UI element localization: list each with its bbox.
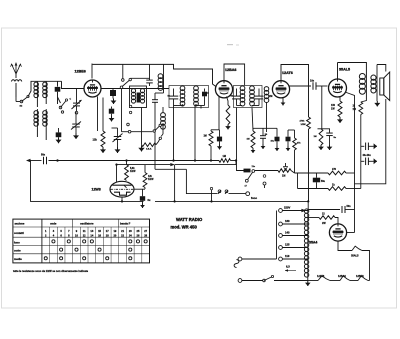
filter cap C23 — [361, 154, 374, 165]
resistor R13 22ohm — [308, 210, 338, 226]
resistor R18 grid leak U4 — [314, 86, 337, 150]
tube U3 12AT6 — [272, 80, 289, 98]
detector coil L15 — [264, 87, 272, 132]
svg-text:WATT RADIO: WATT RADIO — [176, 217, 203, 222]
table frame — [13, 219, 150, 263]
resistor R6 screen — [353, 99, 367, 189]
switch S8 pickup — [245, 170, 279, 188]
capacitor C20 black — [244, 166, 256, 172]
capacitor C1 black — [55, 81, 84, 104]
wire U3 grid loop — [281, 65, 309, 202]
ground under C15 — [261, 144, 266, 149]
table contact numbers — [45, 229, 148, 238]
svg-text:35AL5: 35AL5 — [339, 68, 350, 72]
transformer ground — [305, 277, 311, 286]
svg-text:sezione: sezione — [15, 222, 25, 226]
svg-text:12BE6: 12BE6 — [75, 70, 86, 74]
wire U5 plate — [134, 189, 145, 196]
svg-text:2M: 2M — [269, 95, 272, 98]
capacitor C26 black — [109, 107, 114, 117]
trimmer C3 — [71, 112, 81, 133]
switch S5 — [159, 129, 163, 140]
IF2 can box — [234, 86, 263, 108]
tube U4 output — [329, 79, 347, 98]
capacitor C5 black on plate line — [110, 89, 116, 99]
screen feed wire — [345, 92, 355, 210]
output transformer primary L13 — [359, 73, 366, 99]
ground under C16 — [275, 146, 280, 151]
heater hump 35AL5 — [351, 246, 370, 280]
resistor R2 horizontal — [142, 140, 160, 151]
selector common wire — [276, 211, 278, 260]
svg-text:160: 160 — [285, 219, 290, 223]
svg-text:12BE6: 12BE6 — [356, 275, 364, 278]
tube U1 cathode wires — [98, 97, 104, 132]
svg-text:1M: 1M — [204, 136, 207, 138]
IF1 can box — [169, 86, 209, 108]
svg-text:10n: 10n — [310, 80, 315, 83]
capacitor C25 — [308, 205, 355, 213]
AGC bus arrow — [26, 159, 31, 163]
wire antenna to coil — [28, 81, 37, 96]
svg-text:contatti: contatti — [14, 231, 24, 235]
svg-text:corte: corte — [14, 249, 21, 253]
svg-text:110: 110 — [285, 254, 290, 258]
svg-text:12BA6: 12BA6 — [338, 275, 346, 278]
IF2 cap C12 — [231, 89, 243, 106]
svg-text:12k: 12k — [93, 138, 98, 142]
dial lamp label — [285, 265, 296, 272]
ground right of C23 — [373, 158, 377, 164]
wire IF2 bottom down — [236, 108, 238, 161]
svg-text:oscillatore: oscillatore — [80, 222, 94, 226]
speaker return wire — [355, 99, 386, 184]
wire U1 plate to IF1 — [101, 88, 169, 90]
svg-text:medie: medie — [14, 257, 22, 261]
tap 140 — [279, 231, 308, 238]
resistor R5 cathode — [331, 97, 342, 117]
tube U6 rectifier 35A4 — [309, 223, 347, 244]
capacitor C24 black — [313, 173, 326, 189]
svg-text:140: 140 — [285, 231, 290, 235]
ground under C17 — [286, 146, 291, 151]
svg-text:fono: fono — [14, 240, 20, 244]
IF2 coil L11 — [240, 86, 245, 106]
tube U2 12BA6 — [215, 80, 232, 98]
label 12BE6 — [75, 70, 86, 74]
resistor R1 12k — [93, 131, 106, 147]
ground under C21 — [140, 204, 145, 209]
switch contacts column — [127, 123, 162, 133]
wire U1 grid top — [91, 64, 93, 79]
wire top bus left — [93, 64, 217, 87]
label U5 — [92, 187, 101, 191]
resistor R12 B+ — [298, 184, 361, 191]
tube U2 cathode — [219, 97, 228, 130]
table O marks fono — [52, 240, 147, 243]
heater hump 12BE6 — [356, 275, 368, 281]
switch S4 osc — [120, 64, 149, 131]
svg-text:onde: onde — [50, 222, 57, 226]
pot wiper — [284, 163, 288, 171]
capacitor C19 series — [41, 154, 47, 165]
svg-text:220V: 220V — [284, 206, 290, 210]
B+ arrow line — [117, 160, 237, 166]
title WATT RADIO — [176, 217, 203, 222]
svg-text:12AT6: 12AT6 — [317, 275, 325, 278]
speaker voice coil L14 — [371, 65, 386, 96]
svg-text:5,6k: 5,6k — [130, 168, 135, 170]
IF1 coil L10 — [194, 86, 199, 106]
switch S3 — [58, 97, 68, 113]
heater hump 12BA6 — [338, 275, 350, 281]
osc core — [137, 93, 140, 103]
table O marks corte — [60, 248, 132, 251]
resistor R11 field — [328, 168, 355, 175]
svg-text:tutte le resistenze sono da 1: tutte le resistenze sono da 1/2W se non … — [13, 269, 89, 273]
svg-text:c.a.v.: c.a.v. — [146, 149, 152, 151]
capacitor C11 black — [217, 130, 222, 145]
ground left of R2 — [138, 146, 144, 152]
svg-text:12W8: 12W8 — [92, 187, 101, 191]
wire osc box bottom down — [141, 108, 143, 145]
AGC bus wire — [30, 160, 236, 162]
oscillator coil box — [130, 86, 147, 108]
switch S6 fono — [210, 187, 245, 201]
capacitor C16 black — [253, 128, 280, 146]
terminal fono — [246, 192, 258, 200]
svg-text:12AT6: 12AT6 — [282, 71, 293, 75]
table header sezione — [14, 222, 25, 235]
table header banda — [120, 222, 131, 226]
osc coil L5 — [129, 89, 135, 114]
IF1 cap C9 — [168, 89, 183, 106]
capacitor C8 — [152, 93, 186, 169]
osc coil L6 — [140, 89, 144, 104]
ground under R1 — [100, 147, 106, 153]
table O marks medie — [44, 257, 132, 260]
ground under C3 — [73, 133, 79, 139]
mains symbol — [234, 260, 239, 268]
power transformer winding — [304, 209, 308, 277]
heater chain wire — [308, 280, 370, 282]
ground under R5 — [337, 117, 343, 123]
svg-text:125: 125 — [285, 243, 290, 247]
coil L4 lower — [43, 109, 48, 140]
svg-text:1M: 1M — [223, 155, 226, 158]
trimmer C2 — [70, 89, 82, 114]
coil L1 upper — [34, 81, 39, 107]
svg-text:50n: 50n — [347, 205, 352, 208]
wire volume feed — [237, 161, 248, 171]
svg-text:50n: 50n — [41, 154, 46, 157]
volume pot R8 — [278, 169, 291, 178]
tube U1 12BE6 — [84, 80, 101, 98]
wire U4 plate top — [338, 63, 367, 79]
svg-text:1M: 1M — [282, 175, 285, 178]
switch S1 antenna — [16, 95, 29, 107]
capacitor C4 black — [56, 128, 62, 137]
wire rect heater right — [338, 241, 352, 250]
svg-text:1M: 1M — [314, 136, 317, 138]
svg-text:1/2W: 1/2W — [130, 171, 136, 173]
capacitor C18 — [310, 80, 328, 90]
svg-text:mod. WR 450: mod. WR 450 — [171, 224, 198, 229]
terminal aux — [263, 175, 266, 188]
IF1 coil L9 — [180, 86, 185, 106]
label 35AL5 — [339, 68, 350, 72]
svg-text:470k: 470k — [300, 120, 306, 123]
table header onde — [50, 222, 57, 226]
resistor R7 AGC 1M — [219, 155, 231, 162]
resistor R10 — [143, 165, 154, 189]
svg-text:1M: 1M — [247, 139, 250, 141]
note text — [13, 269, 89, 273]
resistor R9 — [125, 161, 137, 181]
tube U5 ballast — [110, 165, 134, 202]
svg-text:50u: 50u — [321, 181, 326, 183]
svg-text:270: 270 — [332, 168, 337, 171]
resistor R4 — [247, 108, 256, 149]
resistor R15 — [293, 130, 302, 173]
svg-text:35AL5: 35AL5 — [351, 255, 359, 258]
table grid — [13, 219, 150, 263]
ground under C6 — [115, 147, 121, 153]
svg-text:banda F: banda F — [120, 222, 131, 226]
osc coil L7 — [158, 64, 163, 93]
svg-text:1/2W: 1/2W — [148, 179, 154, 181]
wire x174 down — [174, 165, 176, 202]
resistor R17 on grid line — [300, 117, 311, 129]
antenna A1 — [11, 63, 22, 97]
ground under speaker — [374, 101, 380, 107]
svg-text:6,3: 6,3 — [286, 265, 290, 269]
mains terminal 1 — [238, 257, 276, 261]
IF2 cap C13 — [252, 89, 263, 106]
resistor R14 cathode — [225, 105, 231, 130]
coil L3 lower — [34, 109, 39, 137]
speaker SP1 — [380, 72, 390, 101]
wire U2 plate — [222, 64, 224, 67]
ground under C4 — [56, 137, 62, 143]
wire fono line — [186, 169, 217, 193]
ground right of C22 — [373, 143, 377, 149]
ground under U3 — [281, 97, 286, 106]
svg-text:35A4: 35A4 — [309, 241, 317, 245]
capacitor C17 black — [286, 130, 295, 146]
ground under C5 — [111, 99, 117, 105]
ground under C11 — [217, 145, 222, 150]
svg-text:12BA6: 12BA6 — [225, 68, 236, 72]
IF1 cap C10 — [196, 89, 210, 109]
wire U3 plate coupling — [289, 85, 312, 87]
left frame wire — [31, 161, 144, 202]
tap 220V — [279, 206, 308, 213]
wire U2 plate loop to IF2 top — [224, 64, 245, 86]
junction dot — [57, 160, 59, 162]
padder C6 — [112, 128, 123, 147]
mains terminal 2 — [238, 279, 262, 283]
wire rectifier cathode — [347, 210, 355, 233]
table header oscillatore — [80, 222, 94, 226]
wire IF1 cap bottom down — [174, 104, 197, 160]
tap 160 — [279, 219, 308, 226]
capacitor C21 black — [140, 196, 151, 203]
label 12BA6 — [225, 68, 236, 72]
coil L2 upper — [43, 81, 48, 104]
filter cap C22 — [361, 143, 374, 151]
junction dots buses — [116, 160, 310, 203]
wire L1-L2 top — [37, 80, 61, 82]
IF2 coil L12 — [250, 86, 255, 106]
tap 110 — [279, 254, 308, 261]
ground under R4 — [251, 148, 256, 153]
ground under C26 — [109, 116, 115, 122]
svg-text:fono: fono — [251, 196, 257, 200]
svg-text:40+40u: 40+40u — [363, 154, 372, 157]
resistor R3 — [204, 130, 220, 161]
label 12AT6 — [282, 71, 293, 75]
capacitor C15 — [260, 133, 268, 144]
bottom bus — [155, 201, 308, 209]
switch S7 mains — [263, 275, 308, 281]
capacitor C7 — [146, 64, 153, 86]
tap 125 — [279, 243, 308, 250]
wire speaker bottom — [376, 95, 378, 101]
title model — [171, 224, 198, 229]
heater hump 12AT6 — [317, 275, 330, 281]
scan dirt marks — [227, 44, 239, 46]
osc coil L8 lower — [161, 107, 166, 129]
wire pot right — [291, 171, 328, 189]
table row labels — [14, 240, 22, 260]
